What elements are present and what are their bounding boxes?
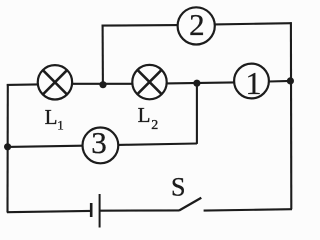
- svg-text:2: 2: [151, 118, 158, 133]
- svg-text:1: 1: [246, 65, 262, 101]
- svg-text:L: L: [45, 105, 58, 129]
- svg-text:2: 2: [189, 7, 205, 42]
- svg-text:S: S: [171, 172, 185, 201]
- svg-text:1: 1: [57, 117, 64, 132]
- svg-text:L: L: [138, 103, 151, 127]
- svg-text:3: 3: [91, 125, 107, 160]
